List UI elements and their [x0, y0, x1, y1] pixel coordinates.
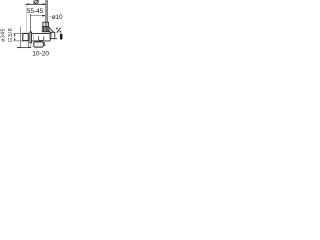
internal cup	[38, 36, 44, 40]
label diameter (top)	[34, 0, 39, 4]
extension below flange	[30, 43, 32, 48]
svg-text:ø345: ø345	[0, 28, 6, 42]
handwheel pill	[34, 42, 44, 47]
rosette square	[23, 33, 29, 40]
extension line top-left	[13, 32, 22, 34]
compression nut	[43, 22, 49, 26]
depth dimension line	[17, 47, 31, 48]
fraction label at right edge	[56, 28, 61, 33]
svg-text:55-45: 55-45	[27, 8, 44, 15]
svg-text:10-20: 10-20	[32, 50, 49, 57]
leader for o10 label	[48, 15, 51, 17]
leader arrow to pipe	[31, 15, 46, 17]
dark bar below fraction	[60, 34, 62, 40]
riser pipe o10	[46, 0, 47, 22]
extension line bottom-left	[13, 40, 22, 42]
svg-text:ø10: ø10	[52, 14, 63, 21]
vertical dimension line with arrows	[14, 33, 16, 41]
svg-text:G3/8: G3/8	[8, 28, 14, 42]
valve body	[32, 34, 50, 41]
knurled ring	[42, 27, 49, 32]
extension line (faint, from left arrow down)	[25, 5, 27, 32]
angled duct to outlet cap	[48, 28, 53, 34]
flange collar	[30, 32, 32, 44]
extension below rosette	[27, 41, 29, 48]
mark right of pill	[44, 42, 46, 46]
stub line right of cap	[55, 38, 58, 40]
top dimension line	[26, 4, 46, 6]
extension line from rosette front up	[30, 14, 32, 33]
outlet cap	[50, 32, 55, 38]
wall line	[20, 27, 22, 48]
body step line	[33, 34, 35, 41]
